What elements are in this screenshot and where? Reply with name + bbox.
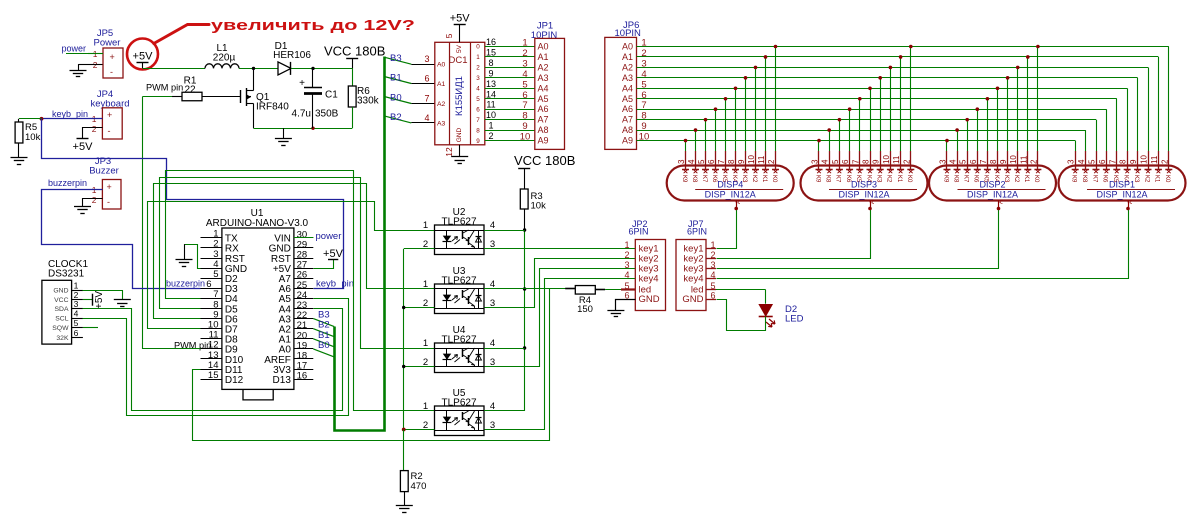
- svg-text:key4: key4: [639, 274, 659, 285]
- svg-text:C1: C1: [325, 90, 338, 101]
- svg-text:1: 1: [423, 338, 428, 349]
- svg-text:IRF840: IRF840: [256, 102, 289, 113]
- svg-text:9: 9: [737, 159, 746, 164]
- svg-text:A6: A6: [538, 104, 549, 114]
- svg-text:A4: A4: [538, 83, 549, 93]
- svg-text:PWM pin: PWM pin: [174, 341, 211, 351]
- svg-text:2: 2: [767, 159, 776, 164]
- svg-text:350B: 350B: [315, 109, 339, 120]
- svg-text:6: 6: [707, 159, 716, 164]
- svg-text:6: 6: [206, 279, 211, 290]
- svg-text:470: 470: [411, 481, 427, 492]
- svg-text:2: 2: [641, 48, 646, 59]
- svg-text:10k: 10k: [531, 201, 547, 212]
- svg-text:A0: A0: [437, 62, 446, 69]
- svg-text:A3: A3: [437, 120, 446, 127]
- svg-text:K1: K1: [896, 175, 902, 183]
- svg-text:5: 5: [74, 318, 79, 328]
- svg-text:10k: 10k: [25, 132, 41, 143]
- svg-text:power: power: [61, 44, 86, 54]
- svg-text:2: 2: [476, 65, 480, 72]
- svg-text:5: 5: [1088, 159, 1097, 164]
- svg-text:3: 3: [1067, 159, 1076, 164]
- svg-text:keyb_pin: keyb_pin: [52, 109, 88, 119]
- svg-text:+5V: +5V: [133, 51, 154, 63]
- svg-text:TLP627: TLP627: [441, 398, 476, 409]
- svg-text:8: 8: [727, 159, 736, 164]
- svg-text:VCC 180B: VCC 180B: [514, 153, 575, 168]
- svg-text:10: 10: [520, 132, 531, 143]
- svg-text:8: 8: [1119, 159, 1128, 164]
- svg-text:1: 1: [423, 220, 428, 231]
- svg-text:K7: K7: [701, 175, 707, 183]
- svg-text:2: 2: [624, 250, 629, 260]
- svg-text:A7: A7: [622, 115, 633, 125]
- svg-text:6PIN: 6PIN: [687, 227, 707, 237]
- svg-text:buzzerpin: buzzerpin: [166, 278, 205, 288]
- svg-text:-: -: [108, 126, 111, 136]
- svg-text:B3: B3: [390, 53, 402, 64]
- svg-text:A7: A7: [538, 115, 549, 125]
- svg-text:K6: K6: [711, 175, 717, 183]
- svg-text:-: -: [107, 197, 110, 207]
- svg-text:A: A: [1128, 200, 1134, 204]
- svg-text:1: 1: [423, 279, 428, 290]
- svg-text:TLP627: TLP627: [441, 217, 476, 228]
- svg-text:B0: B0: [390, 93, 402, 104]
- svg-text:D12: D12: [225, 375, 244, 386]
- svg-text:K9: K9: [681, 175, 687, 183]
- svg-text:2: 2: [522, 48, 527, 59]
- svg-text:К155ИД1: К155ИД1: [454, 76, 465, 116]
- svg-text:+: +: [107, 110, 112, 120]
- svg-text:K2: K2: [751, 175, 757, 183]
- svg-text:8: 8: [522, 111, 527, 122]
- svg-text:3: 3: [74, 299, 79, 309]
- svg-text:+5V: +5V: [323, 248, 344, 260]
- svg-text:1: 1: [624, 240, 629, 250]
- svg-text:5: 5: [697, 159, 706, 164]
- svg-text:DC1: DC1: [448, 55, 467, 66]
- svg-text:+5V: +5V: [450, 13, 471, 25]
- svg-text:8: 8: [989, 159, 998, 164]
- svg-text:4: 4: [490, 220, 495, 231]
- svg-text:11: 11: [1150, 155, 1159, 164]
- svg-text:A9: A9: [622, 136, 633, 146]
- svg-text:A8: A8: [622, 125, 633, 135]
- svg-text:K9: K9: [814, 175, 820, 183]
- svg-text:K9: K9: [1071, 175, 1077, 183]
- svg-text:key4: key4: [683, 274, 703, 285]
- svg-text:DISP2: DISP2: [979, 180, 1005, 190]
- svg-text:Power: Power: [94, 38, 121, 49]
- svg-text:9: 9: [872, 159, 881, 164]
- svg-text:GND: GND: [682, 294, 703, 305]
- svg-text:A2: A2: [437, 101, 446, 108]
- svg-text:5: 5: [831, 159, 840, 164]
- svg-text:K7: K7: [1091, 175, 1097, 183]
- svg-text:A0: A0: [538, 42, 549, 52]
- svg-text:K8: K8: [1081, 175, 1087, 183]
- svg-text:K9: K9: [942, 175, 948, 183]
- svg-text:VCC 180B: VCC 180B: [324, 44, 385, 59]
- svg-text:K8: K8: [952, 175, 958, 183]
- svg-text:4: 4: [624, 270, 629, 280]
- svg-text:6: 6: [424, 74, 429, 84]
- svg-text:2: 2: [488, 131, 493, 141]
- svg-text:DISP_IN12A: DISP_IN12A: [705, 190, 756, 200]
- svg-text:1: 1: [74, 281, 79, 291]
- svg-text:ARDUINO-NANO-V3.0: ARDUINO-NANO-V3.0: [206, 218, 309, 229]
- svg-text:8: 8: [476, 127, 480, 134]
- svg-text:GND: GND: [456, 127, 463, 142]
- svg-text:5: 5: [444, 33, 454, 38]
- svg-text:K2: K2: [1013, 175, 1019, 183]
- svg-text:11: 11: [757, 155, 766, 164]
- svg-text:SCL: SCL: [55, 316, 68, 323]
- svg-text:3: 3: [677, 159, 686, 164]
- svg-text:4: 4: [490, 338, 495, 349]
- svg-text:A3: A3: [622, 73, 633, 83]
- svg-text:7: 7: [979, 159, 988, 164]
- svg-text:11: 11: [486, 100, 495, 110]
- svg-text:K0: K0: [1164, 175, 1170, 183]
- svg-text:D13: D13: [273, 375, 292, 386]
- svg-text:A8: A8: [538, 125, 549, 135]
- svg-text:2: 2: [92, 124, 97, 134]
- svg-text:GND: GND: [53, 288, 68, 295]
- svg-text:5: 5: [476, 96, 480, 103]
- svg-text:150: 150: [577, 304, 593, 315]
- svg-text:A2: A2: [538, 62, 549, 72]
- svg-text:10: 10: [882, 155, 891, 164]
- svg-text:K8: K8: [825, 175, 831, 183]
- svg-text:5: 5: [213, 269, 218, 280]
- svg-text:6: 6: [74, 328, 79, 338]
- svg-text:8: 8: [488, 58, 493, 68]
- svg-text:5: 5: [522, 79, 527, 90]
- svg-text:+5V: +5V: [94, 291, 105, 309]
- svg-text:1: 1: [423, 401, 428, 412]
- svg-text:B1: B1: [390, 73, 402, 84]
- svg-text:10: 10: [486, 110, 496, 120]
- svg-text:6: 6: [522, 90, 527, 101]
- svg-text:A1: A1: [622, 52, 633, 62]
- svg-text:K0: K0: [1033, 175, 1039, 183]
- svg-text:A6: A6: [622, 104, 633, 114]
- svg-text:K6: K6: [973, 175, 979, 183]
- svg-text:7: 7: [522, 100, 527, 111]
- svg-text:VCC: VCC: [54, 297, 68, 304]
- svg-text:4: 4: [74, 309, 79, 319]
- svg-text:K1: K1: [1023, 175, 1029, 183]
- svg-text:A9: A9: [538, 136, 549, 146]
- svg-text:4: 4: [949, 159, 958, 164]
- svg-text:SDA: SDA: [55, 306, 69, 313]
- svg-text:A4: A4: [622, 83, 633, 93]
- svg-text:DS3231: DS3231: [48, 269, 85, 280]
- svg-text:6: 6: [476, 106, 480, 113]
- svg-text:DISP_IN12A: DISP_IN12A: [1096, 190, 1147, 200]
- svg-text:7: 7: [476, 117, 480, 124]
- svg-text:4.7u: 4.7u: [292, 109, 311, 120]
- svg-text:A5: A5: [538, 94, 549, 104]
- svg-text:6: 6: [1098, 159, 1107, 164]
- svg-text:3: 3: [424, 54, 429, 64]
- svg-text:4: 4: [687, 159, 696, 164]
- svg-text:14: 14: [486, 89, 496, 99]
- svg-text:+: +: [110, 52, 115, 62]
- svg-text:LED: LED: [785, 314, 804, 325]
- svg-text:keyb_pin: keyb_pin: [316, 278, 354, 289]
- svg-text:A: A: [870, 200, 876, 204]
- svg-text:32K: 32K: [56, 335, 69, 342]
- svg-text:4: 4: [641, 69, 646, 80]
- svg-text:SQW: SQW: [52, 325, 69, 332]
- svg-text:HER106: HER106: [273, 50, 311, 61]
- svg-text:K7: K7: [835, 175, 841, 183]
- svg-text:0: 0: [476, 44, 480, 51]
- svg-text:12: 12: [444, 147, 454, 157]
- svg-text:A1: A1: [538, 52, 549, 62]
- svg-text:K2: K2: [1143, 175, 1149, 183]
- svg-text:K0: K0: [771, 175, 777, 183]
- svg-text:5V: 5V: [456, 44, 463, 53]
- svg-text:K2: K2: [886, 175, 892, 183]
- svg-text:K1: K1: [1154, 175, 1160, 183]
- svg-text:16: 16: [486, 37, 496, 47]
- svg-text:DISP_IN12A: DISP_IN12A: [967, 190, 1018, 200]
- svg-text:4: 4: [1077, 159, 1086, 164]
- svg-text:1: 1: [522, 38, 527, 49]
- svg-text:4: 4: [476, 86, 480, 93]
- svg-text:DISP_IN12A: DISP_IN12A: [838, 190, 889, 200]
- svg-text:B0: B0: [318, 340, 330, 351]
- svg-text:10: 10: [747, 155, 756, 164]
- svg-text:увеличить до 12V?: увеличить до 12V?: [211, 18, 415, 34]
- svg-text:9: 9: [476, 138, 480, 145]
- svg-text:5: 5: [624, 281, 629, 291]
- svg-text:A0: A0: [622, 42, 633, 52]
- svg-text:K6: K6: [1102, 175, 1108, 183]
- svg-text:A5: A5: [622, 94, 633, 104]
- svg-text:+: +: [107, 182, 112, 192]
- svg-text:4: 4: [424, 113, 429, 123]
- svg-text:K7: K7: [963, 175, 969, 183]
- svg-text:7: 7: [717, 159, 726, 164]
- svg-text:8: 8: [862, 159, 871, 164]
- svg-text:3: 3: [476, 75, 480, 82]
- svg-text:6: 6: [969, 159, 978, 164]
- svg-text:DISP4: DISP4: [717, 180, 743, 190]
- svg-text:K0: K0: [906, 175, 912, 183]
- svg-text:6: 6: [841, 159, 850, 164]
- svg-text:A: A: [999, 200, 1005, 204]
- svg-text:5: 5: [959, 159, 968, 164]
- svg-text:K1: K1: [761, 175, 767, 183]
- svg-text:10: 10: [1140, 155, 1149, 164]
- svg-text:9: 9: [488, 68, 493, 78]
- svg-text:9: 9: [522, 121, 527, 132]
- svg-text:PWM pin: PWM pin: [146, 83, 183, 93]
- svg-text:9: 9: [999, 159, 1008, 164]
- svg-text:2: 2: [92, 195, 97, 205]
- svg-text:+5V: +5V: [73, 141, 94, 153]
- svg-text:A3: A3: [538, 73, 549, 83]
- svg-text:13: 13: [486, 79, 496, 89]
- svg-text:A: A: [736, 200, 742, 204]
- svg-text:Buzzer: Buzzer: [89, 166, 119, 177]
- svg-text:1: 1: [488, 121, 493, 131]
- svg-text:TLP627: TLP627: [441, 276, 476, 287]
- svg-text:3: 3: [522, 58, 527, 69]
- svg-text:buzzerpin: buzzerpin: [48, 178, 87, 188]
- svg-text:4: 4: [522, 69, 527, 80]
- svg-text:+: +: [299, 78, 305, 89]
- svg-text:3: 3: [624, 260, 629, 270]
- svg-text:7: 7: [424, 94, 429, 104]
- svg-text:-: -: [110, 67, 113, 77]
- svg-text:GND: GND: [639, 294, 660, 305]
- svg-text:power: power: [316, 231, 342, 242]
- svg-text:6PIN: 6PIN: [629, 227, 649, 237]
- svg-text:6: 6: [641, 90, 646, 101]
- svg-text:TLP627: TLP627: [441, 335, 476, 346]
- svg-text:DISP1: DISP1: [1109, 180, 1135, 190]
- svg-text:15: 15: [486, 47, 496, 57]
- svg-text:16: 16: [297, 371, 308, 382]
- svg-text:K8: K8: [691, 175, 697, 183]
- svg-text:1: 1: [476, 54, 480, 61]
- svg-text:B2: B2: [390, 112, 402, 123]
- svg-text:330k: 330k: [357, 96, 380, 107]
- svg-text:DISP3: DISP3: [851, 180, 877, 190]
- svg-text:A1: A1: [437, 81, 446, 88]
- svg-text:11: 11: [892, 155, 901, 164]
- svg-text:220µ: 220µ: [213, 53, 236, 64]
- svg-text:4: 4: [821, 159, 830, 164]
- svg-text:9: 9: [1129, 159, 1138, 164]
- svg-text:A2: A2: [622, 62, 633, 72]
- svg-text:15: 15: [208, 370, 219, 381]
